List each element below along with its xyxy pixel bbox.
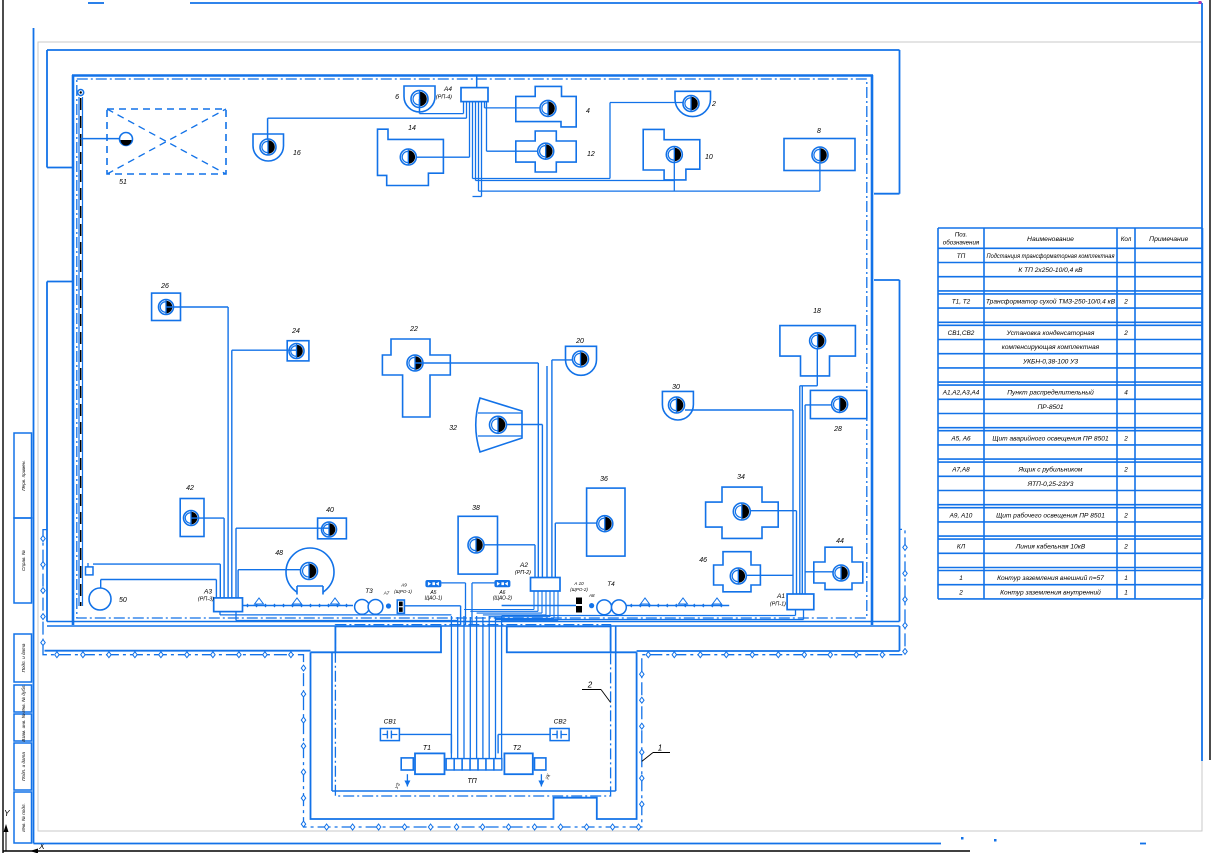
- svg-text:обозначения: обозначения: [943, 240, 980, 247]
- svg-text:4: 4: [586, 108, 590, 115]
- svg-text:26: 26: [160, 283, 169, 290]
- svg-text:16: 16: [293, 150, 301, 157]
- svg-text:Ящик с рубильником: Ящик с рубильником: [1018, 466, 1083, 474]
- svg-text:2: 2: [587, 681, 593, 690]
- svg-text:2: 2: [1123, 330, 1128, 337]
- svg-text:А9, А10: А9, А10: [949, 512, 973, 519]
- svg-text:Т2: Т2: [513, 745, 521, 752]
- svg-text:2: 2: [958, 589, 963, 596]
- svg-text:36: 36: [600, 476, 608, 483]
- svg-text:А9: А9: [400, 582, 407, 587]
- svg-text:48: 48: [275, 550, 283, 557]
- svg-text:ТП: ТП: [957, 253, 966, 260]
- svg-text:(РП-2): (РП-2): [515, 570, 531, 576]
- svg-text:СВ1,СВ2: СВ1,СВ2: [948, 330, 975, 337]
- svg-text:Т3: Т3: [365, 588, 373, 595]
- svg-text:42: 42: [186, 485, 194, 492]
- svg-text:10: 10: [705, 154, 713, 161]
- svg-text:Взам. инв. №: Взам. инв. №: [21, 713, 26, 741]
- svg-text:УКБН-0,38-100 У3: УКБН-0,38-100 У3: [1022, 358, 1078, 365]
- svg-text:(РП-1): (РП-1): [770, 602, 786, 608]
- svg-text:2: 2: [1123, 435, 1128, 442]
- svg-text:4: 4: [1124, 390, 1128, 397]
- svg-text:14: 14: [408, 125, 416, 132]
- svg-text:Щит рабочего освещения ПР 8501: Щит рабочего освещения ПР 8501: [996, 511, 1105, 519]
- svg-text:30: 30: [672, 384, 680, 391]
- svg-text:24: 24: [291, 328, 300, 335]
- svg-text:Контур заземления внешний n=57: Контур заземления внешний n=57: [997, 574, 1104, 582]
- svg-text:Инв. № дубл.: Инв. № дубл.: [21, 684, 26, 712]
- svg-text:Т4: Т4: [607, 581, 615, 588]
- svg-text:8: 8: [817, 128, 821, 135]
- svg-text:20: 20: [575, 338, 584, 345]
- svg-text:18: 18: [813, 308, 821, 315]
- svg-text:Установка конденсаторная: Установка конденсаторная: [1006, 329, 1095, 337]
- svg-text:32: 32: [449, 425, 457, 432]
- svg-text:Подстанция трансформаторная ко: Подстанция трансформаторная комплектная: [987, 252, 1115, 260]
- svg-text:2: 2: [711, 101, 716, 108]
- svg-text:А 10: А 10: [573, 581, 584, 586]
- svg-text:компенсирующая комплектная: компенсирующая комплектная: [1002, 344, 1100, 351]
- svg-text:КЛ: КЛ: [957, 544, 966, 551]
- svg-text:(РП-4): (РП-4): [436, 95, 452, 101]
- svg-text:А7,А8: А7,А8: [951, 467, 970, 474]
- svg-text:44: 44: [836, 538, 844, 545]
- svg-text:А7: А7: [383, 591, 390, 596]
- svg-text:ЯТП-0,25-23У3: ЯТП-0,25-23У3: [1027, 481, 1074, 488]
- svg-text:2: 2: [1123, 299, 1128, 306]
- svg-text:Наименование: Наименование: [1027, 236, 1074, 243]
- svg-text:Т1, Т2: Т1, Т2: [952, 299, 971, 306]
- svg-text:Справ. №: Справ. №: [21, 550, 26, 571]
- svg-text:34: 34: [737, 474, 745, 481]
- svg-text:22: 22: [409, 326, 418, 333]
- svg-text:СВ1: СВ1: [384, 719, 397, 726]
- svg-text:28: 28: [833, 426, 842, 433]
- svg-text:К ТП 2х250-10/0,4 кВ: К ТП 2х250-10/0,4 кВ: [1018, 267, 1083, 274]
- svg-text:2: 2: [1123, 467, 1128, 474]
- svg-text:46: 46: [699, 557, 707, 564]
- svg-text:1: 1: [658, 744, 662, 753]
- svg-text:51: 51: [119, 179, 127, 186]
- svg-text:Трансформатор сухой ТМЗ-250-10: Трансформатор сухой ТМЗ-250-10/0,4 кВ: [986, 298, 1116, 306]
- svg-text:Кол: Кол: [1121, 236, 1132, 243]
- svg-text:А2: А2: [519, 562, 528, 569]
- svg-text:ТП: ТП: [467, 778, 477, 785]
- svg-text:1: 1: [1124, 575, 1128, 582]
- svg-text:1: 1: [1124, 589, 1128, 596]
- svg-text:(ЩРО-1): (ЩРО-1): [394, 589, 412, 594]
- svg-text:50: 50: [119, 597, 127, 604]
- svg-text:Подп. и дата: Подп. и дата: [21, 643, 26, 672]
- svg-text:(РП-3): (РП-3): [198, 597, 214, 603]
- svg-text:ЩАО-1): ЩАО-1): [425, 596, 443, 602]
- svg-text:Поз.: Поз.: [955, 232, 967, 239]
- svg-text:А5, А6: А5, А6: [950, 435, 971, 442]
- svg-text:Щит аварийного освещения ПР 85: Щит аварийного освещения ПР 8501: [992, 434, 1109, 442]
- svg-text:12: 12: [587, 151, 595, 158]
- svg-text:А1,А2,А3,А4: А1,А2,А3,А4: [942, 390, 980, 397]
- svg-text:Инв. № подл.: Инв. № подл.: [21, 803, 26, 832]
- svg-text:А3: А3: [203, 589, 212, 596]
- svg-text:38: 38: [472, 505, 480, 512]
- svg-text:2: 2: [1123, 512, 1128, 519]
- svg-text:Линия кабельная 10кВ: Линия кабельная 10кВ: [1015, 543, 1086, 551]
- svg-text:Подп. и дата: Подп. и дата: [21, 752, 26, 781]
- svg-text:Пункт распределительный: Пункт распределительный: [1007, 389, 1094, 397]
- svg-text:6: 6: [395, 94, 399, 101]
- svg-text:А8: А8: [588, 593, 595, 598]
- svg-text:2: 2: [1123, 544, 1128, 551]
- svg-text:(ЩРО-2): (ЩРО-2): [570, 587, 588, 592]
- svg-text:40: 40: [326, 507, 334, 514]
- svg-text:Т1: Т1: [423, 745, 431, 752]
- svg-text:Перв. примен.: Перв. примен.: [21, 460, 26, 491]
- svg-text:1: 1: [959, 575, 963, 582]
- svg-text:Контур заземления внутренний: Контур заземления внутренний: [1000, 588, 1101, 596]
- svg-text:Примечание: Примечание: [1149, 236, 1188, 243]
- svg-text:А4: А4: [443, 86, 452, 93]
- svg-text:СВ2: СВ2: [554, 719, 567, 726]
- svg-text:ПР-8501: ПР-8501: [1037, 404, 1063, 411]
- svg-text:(ЩАО-2): (ЩАО-2): [493, 596, 513, 602]
- svg-text:X: X: [38, 841, 45, 851]
- svg-text:А1: А1: [776, 593, 785, 600]
